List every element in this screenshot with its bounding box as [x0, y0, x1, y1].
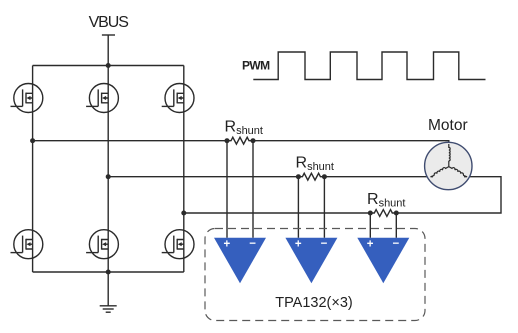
wire half-bridge A vertical: [32, 66, 34, 273]
junction dot bottom rail: [106, 270, 111, 275]
junction dot Rshunt2 right: [322, 174, 327, 179]
wire phase A: [33, 140, 227, 142]
PWM waveform: [253, 52, 485, 80]
svg-text:+: +: [223, 238, 230, 250]
motor winding C lead: [463, 175, 467, 177]
wire phase A to motor: [253, 141, 449, 146]
wire phase C to motor: [396, 177, 501, 213]
wire Rshunt2 sense +: [297, 177, 299, 238]
op-amp U2: [285, 238, 337, 283]
junction dot phase B tee: [106, 174, 111, 179]
svg-text:PWM: PWM: [242, 59, 270, 73]
wire Rshunt1 sense -: [252, 141, 254, 238]
svg-text:−: −: [321, 238, 328, 250]
junction dot phase A tee: [30, 138, 35, 143]
svg-text:+: +: [295, 238, 302, 250]
transistor Q5 (low-side B): [86, 230, 118, 259]
svg-text:VBUS: VBUS: [89, 14, 129, 31]
motor winding A lead to star: [448, 161, 450, 167]
resistor Rshunt3: [370, 210, 396, 217]
wire ground stem: [107, 272, 109, 306]
wire phase B to motor: [324, 176, 433, 178]
ground: [100, 306, 117, 312]
op-amp U3: [357, 238, 409, 283]
svg-text:−: −: [393, 238, 400, 250]
resistor Rshunt2: [298, 173, 324, 180]
wire half-bridge C vertical: [183, 66, 185, 273]
wire Rshunt3 sense +: [369, 213, 371, 238]
VBUS terminal bar: [102, 34, 115, 36]
wire Rshunt3 sense -: [395, 213, 397, 238]
junction dot phase C tee: [181, 211, 186, 216]
wire Rshunt2 sense -: [323, 177, 325, 238]
motor M1: [425, 142, 472, 189]
transistor Q3 (high-side C): [162, 84, 194, 113]
wire half-bridge B vertical: [107, 66, 109, 273]
svg-text:Motor: Motor: [428, 117, 468, 134]
motor winding B lead: [431, 175, 435, 177]
svg-text:+: +: [367, 238, 374, 250]
transistor Q2 (high-side B): [86, 84, 118, 113]
wire phase C: [184, 212, 370, 214]
svg-text:TPA132(×3): TPA132(×3): [275, 295, 353, 311]
motor winding C (lower-right): [449, 167, 464, 176]
junction dot VBUS/top rail: [106, 63, 111, 68]
motor winding A (top): [449, 144, 450, 161]
op-amp U1: [214, 238, 266, 283]
wire Rshunt1 sense +: [226, 141, 228, 238]
wire phase B: [108, 176, 298, 178]
svg-text:−: −: [249, 238, 256, 250]
transistor Q1 (high-side A): [11, 84, 43, 113]
wire VBUS stem: [107, 35, 109, 66]
junction dot Rshunt1 right: [251, 138, 256, 143]
junction dot Rshunt3 left: [368, 211, 373, 216]
junction dot Rshunt3 right: [394, 211, 399, 216]
wire bottom rail: [33, 271, 184, 273]
junction dot Rshunt1 left: [225, 138, 230, 143]
transistor Q4 (low-side A): [11, 230, 43, 259]
transistor Q6 (low-side C): [162, 230, 194, 259]
junction dot Rshunt2 left: [296, 174, 301, 179]
wire top rail: [33, 65, 184, 67]
resistor Rshunt1: [227, 137, 253, 144]
TPA132 dashed box: [205, 229, 425, 321]
motor winding B (lower-left): [434, 167, 449, 176]
